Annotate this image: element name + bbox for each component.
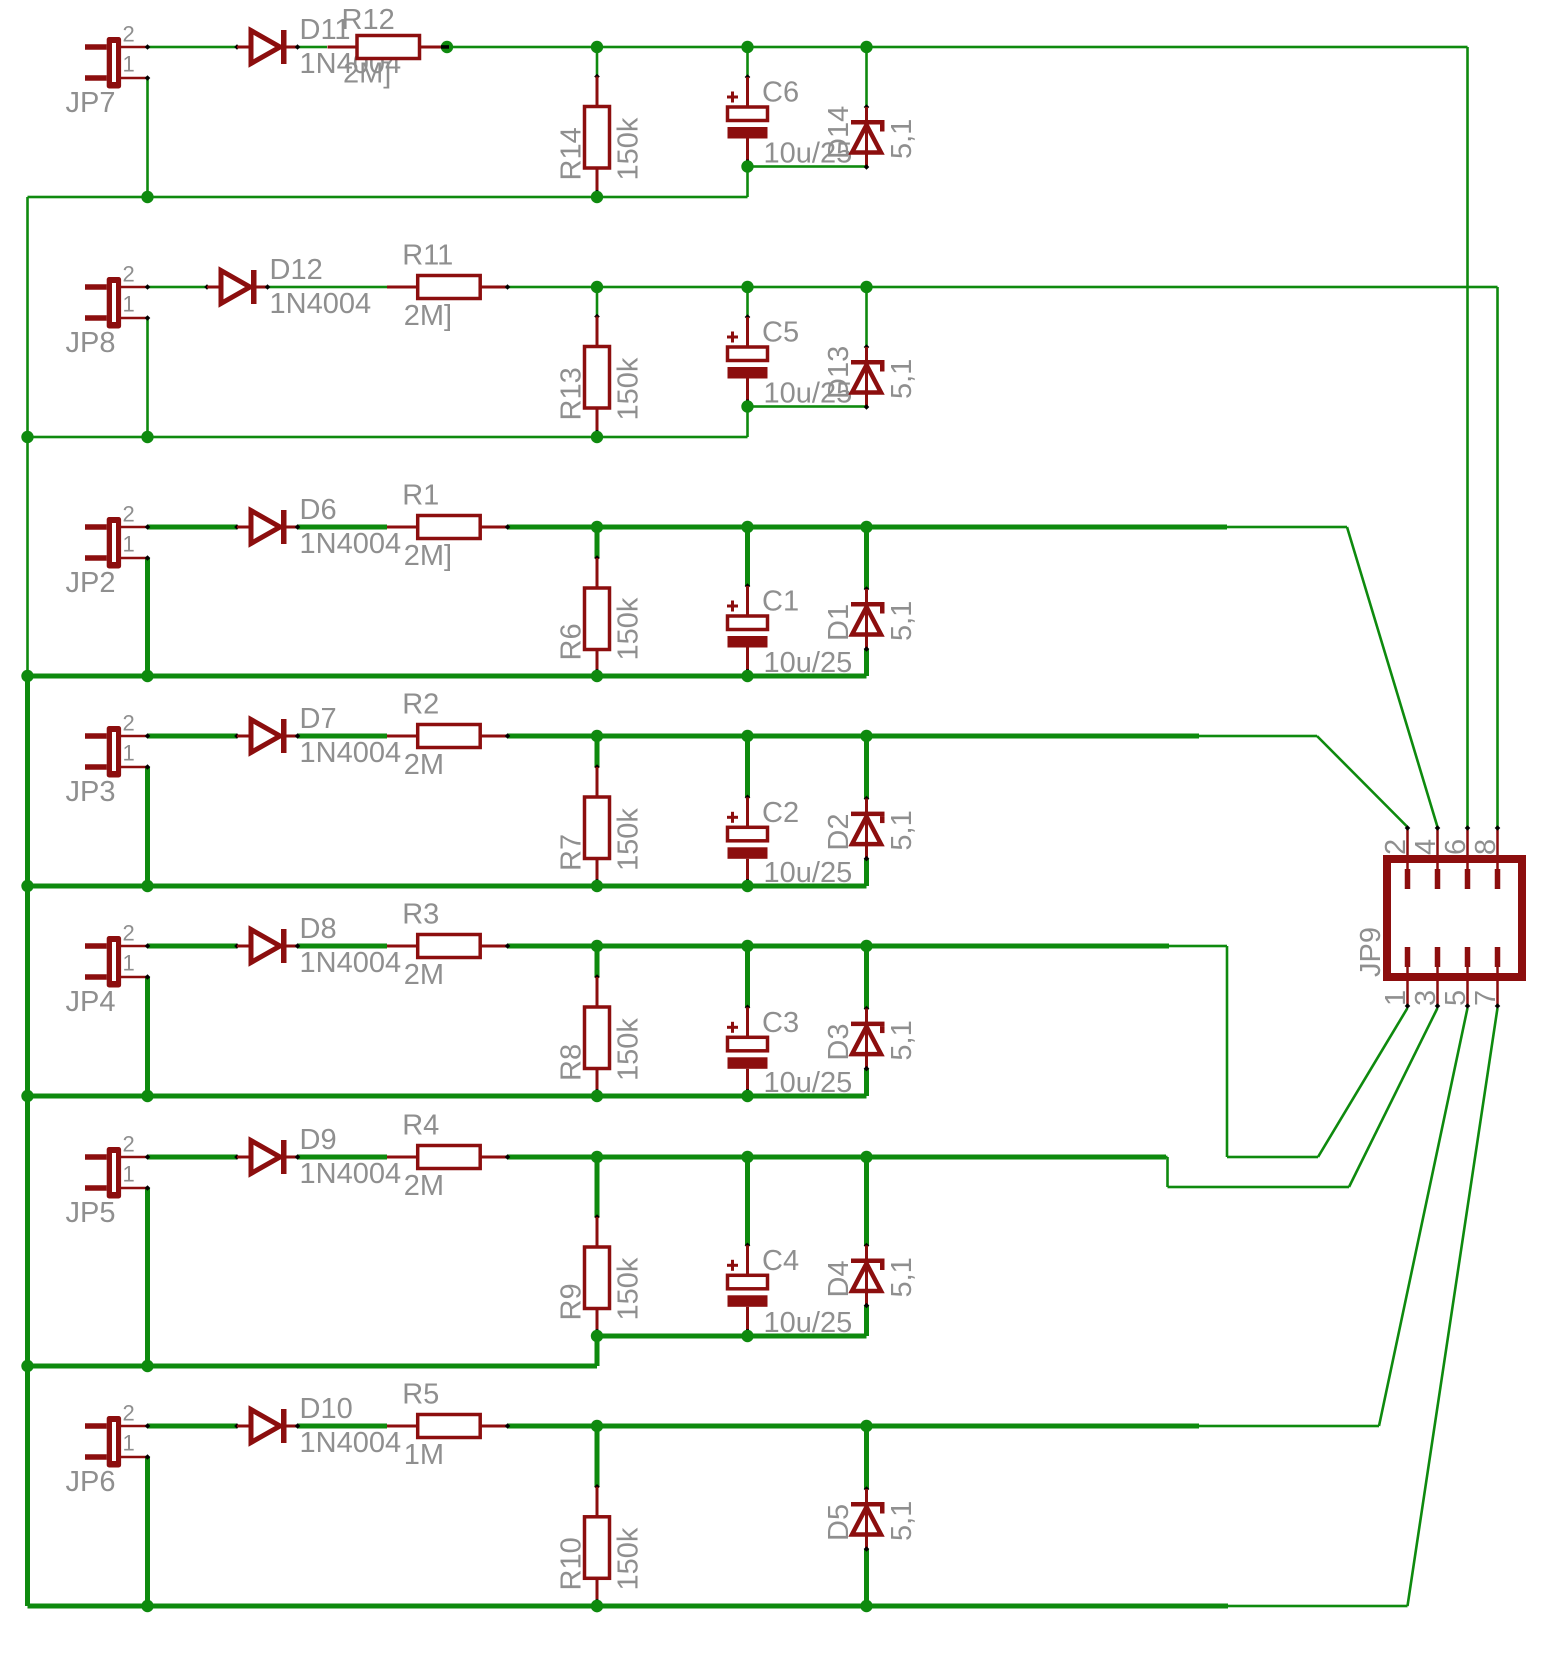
resistor R1 bbox=[387, 516, 508, 539]
svg-text:1: 1 bbox=[123, 532, 135, 557]
svg-text:JP6: JP6 bbox=[66, 1466, 116, 1498]
wire stub to D4 bbox=[864, 1157, 869, 1246]
svg-text:2: 2 bbox=[123, 262, 135, 287]
svg-text:JP2: JP2 bbox=[66, 567, 116, 599]
resistor R5 bbox=[387, 1415, 508, 1438]
wire stub to D2 bbox=[864, 736, 869, 799]
junction bbox=[141, 1090, 153, 1102]
connector JP2 bbox=[85, 517, 150, 569]
svg-text:1: 1 bbox=[123, 1162, 135, 1187]
junction bbox=[741, 880, 753, 892]
svg-text:D5: D5 bbox=[823, 1504, 855, 1541]
wire row3 net (thick) bbox=[508, 525, 1228, 530]
svg-text:1N4004: 1N4004 bbox=[270, 288, 372, 320]
wire stub to D14 bbox=[865, 47, 868, 107]
junction bbox=[591, 41, 603, 53]
diode D6 bbox=[234, 510, 300, 544]
svg-text:1N4004: 1N4004 bbox=[300, 737, 402, 769]
svg-text:150k: 150k bbox=[613, 808, 645, 871]
svg-text:3: 3 bbox=[1410, 990, 1442, 1006]
junction bbox=[591, 1151, 603, 1163]
svg-text:D1: D1 bbox=[823, 604, 855, 641]
svg-text:1: 1 bbox=[123, 52, 135, 77]
wire row1 component bottoms bbox=[748, 165, 867, 168]
svg-text:D10: D10 bbox=[300, 1393, 353, 1425]
junction bbox=[441, 41, 453, 53]
svg-text:D14: D14 bbox=[823, 106, 855, 159]
svg-text:D13: D13 bbox=[823, 346, 855, 399]
svg-text:R5: R5 bbox=[402, 1379, 439, 1411]
connector JP8 bbox=[85, 277, 150, 329]
diode D7 bbox=[234, 719, 300, 753]
svg-text:10u/25: 10u/25 bbox=[764, 1067, 853, 1099]
junction bbox=[741, 670, 753, 682]
pin end bbox=[505, 524, 511, 530]
zener diode D1 bbox=[851, 586, 885, 652]
junction bbox=[591, 431, 603, 443]
wire rail row7 to JP9 pin7 (thin) bbox=[1228, 1605, 1408, 1608]
wire row6 component bottoms bbox=[597, 1334, 867, 1339]
wire row2 component bottoms bbox=[748, 405, 867, 408]
junction bbox=[860, 281, 872, 293]
junction bbox=[741, 1330, 753, 1342]
wire stub to R9 bbox=[595, 1157, 600, 1217]
junction bbox=[860, 1600, 872, 1612]
wire rail row3 bbox=[28, 674, 867, 679]
wire D5 to rail row7 bbox=[864, 1549, 869, 1606]
svg-text:5,1: 5,1 bbox=[886, 1501, 918, 1541]
wire stub to C6 bbox=[746, 47, 749, 77]
svg-text:R8: R8 bbox=[556, 1044, 588, 1081]
junction bbox=[141, 880, 153, 892]
svg-text:1M: 1M bbox=[404, 1439, 444, 1471]
junction on left bus bbox=[21, 431, 33, 443]
wire row4 net to JP9 pin2 (thin) bbox=[1199, 735, 1317, 738]
svg-text:1N4004: 1N4004 bbox=[300, 1158, 402, 1190]
svg-text:2M: 2M bbox=[404, 959, 444, 991]
wire D12 to R11 bbox=[268, 286, 388, 289]
svg-text:D7: D7 bbox=[300, 703, 337, 735]
wire row2 net to JP9 pin8 bbox=[508, 286, 1498, 289]
svg-text:JP9: JP9 bbox=[1355, 927, 1387, 977]
svg-text:R12: R12 bbox=[342, 4, 395, 36]
wire stub to R8 bbox=[595, 946, 600, 977]
junction bbox=[860, 730, 872, 742]
svg-text:1: 1 bbox=[123, 292, 135, 317]
resistor R4 bbox=[387, 1146, 508, 1169]
svg-text:2: 2 bbox=[123, 22, 135, 47]
svg-text:8: 8 bbox=[1470, 839, 1502, 855]
connector JP4 bbox=[85, 936, 150, 988]
diode D12 bbox=[204, 270, 270, 304]
wire stub to C1 bbox=[745, 527, 750, 586]
wire stub to R14 bbox=[596, 47, 599, 77]
resistor R8 bbox=[585, 974, 610, 1096]
pin end bbox=[746, 1089, 749, 1098]
pin end bbox=[746, 400, 749, 409]
svg-text:150k: 150k bbox=[613, 1527, 645, 1590]
junction bbox=[591, 1330, 603, 1342]
diode D10 bbox=[234, 1409, 300, 1443]
junction bbox=[591, 521, 603, 533]
svg-text:2M]: 2M] bbox=[343, 58, 391, 90]
junction bbox=[860, 41, 872, 53]
junction on left bus bbox=[21, 1360, 33, 1372]
pin end bbox=[746, 160, 749, 169]
junction bbox=[860, 940, 872, 952]
junction bbox=[741, 521, 753, 533]
capacitor C5 bbox=[727, 314, 768, 406]
junction bbox=[591, 1600, 603, 1612]
junction bbox=[860, 521, 872, 533]
junction bbox=[591, 1090, 603, 1102]
wire row6 net to JP9 pin3 (thin) bbox=[1166, 1156, 1168, 1159]
resistor R12 bbox=[328, 36, 448, 59]
connector JP9 bbox=[1387, 825, 1522, 1009]
pin end bbox=[596, 669, 599, 678]
junction bbox=[741, 940, 753, 952]
pin end bbox=[746, 1329, 749, 1338]
wire rail row5 bbox=[28, 1094, 867, 1099]
svg-text:D4: D4 bbox=[823, 1260, 855, 1297]
svg-text:6: 6 bbox=[1440, 839, 1472, 855]
svg-text:D6: D6 bbox=[300, 494, 337, 526]
svg-text:C3: C3 bbox=[762, 1007, 799, 1039]
wire D9 to R4 bbox=[298, 1155, 388, 1160]
connector JP3 bbox=[85, 726, 150, 778]
left bus wire (thick lower part) bbox=[25, 676, 30, 1606]
junction bbox=[141, 431, 153, 443]
junction bbox=[591, 191, 603, 203]
svg-text:2M: 2M bbox=[404, 749, 444, 781]
wire JP3 pin1 down to rail bbox=[145, 767, 150, 886]
wire stub to D13 bbox=[865, 287, 868, 347]
wire D10 to R5 bbox=[298, 1424, 388, 1429]
svg-text:R10: R10 bbox=[556, 1537, 588, 1590]
wire row4 net (thick) bbox=[508, 734, 1200, 739]
svg-text:5,1: 5,1 bbox=[886, 810, 918, 850]
junction bbox=[141, 191, 153, 203]
pin end bbox=[746, 669, 749, 678]
wire JP4 pin2 to D8 bbox=[148, 944, 238, 949]
pin end bbox=[596, 1089, 599, 1098]
connector JP5 bbox=[85, 1147, 150, 1199]
junction bbox=[741, 41, 753, 53]
wire row6 bottoms to rail bbox=[595, 1336, 600, 1366]
resistor R9 bbox=[585, 1214, 610, 1336]
pin end bbox=[505, 284, 511, 290]
svg-text:JP4: JP4 bbox=[66, 986, 116, 1018]
junction bbox=[860, 1151, 872, 1163]
wire D6 to R1 bbox=[298, 525, 388, 530]
svg-text:2M: 2M bbox=[404, 1170, 444, 1202]
svg-text:150k: 150k bbox=[613, 357, 645, 420]
wire rail row4 bbox=[28, 884, 867, 889]
junction bbox=[860, 1420, 872, 1432]
svg-text:5,1: 5,1 bbox=[886, 359, 918, 399]
wire JP8 pin1 down to rail bbox=[146, 318, 149, 437]
resistor R13 bbox=[585, 314, 610, 437]
capacitor C3 bbox=[727, 1005, 768, 1097]
capacitor C1 bbox=[727, 583, 768, 676]
junction on left bus bbox=[21, 1090, 33, 1102]
svg-text:D8: D8 bbox=[300, 913, 337, 945]
svg-text:7: 7 bbox=[1470, 990, 1502, 1006]
svg-text:JP3: JP3 bbox=[66, 776, 116, 808]
svg-text:JP7: JP7 bbox=[66, 87, 116, 119]
junction bbox=[141, 670, 153, 682]
diode D8 bbox=[234, 929, 300, 963]
wire JP6 pin2 to D10 bbox=[148, 1424, 238, 1429]
svg-text:150k: 150k bbox=[613, 117, 645, 180]
svg-text:10u/25: 10u/25 bbox=[764, 1307, 853, 1339]
wire rail row7 (thick) bbox=[28, 1604, 1229, 1609]
wire rail row2 bbox=[28, 436, 748, 439]
wire D8 to R3 bbox=[298, 944, 388, 949]
resistor R3 bbox=[387, 935, 508, 958]
wire stub to C4 bbox=[745, 1157, 750, 1245]
junction bbox=[741, 281, 753, 293]
resistor R6 bbox=[585, 555, 610, 676]
pin end bbox=[596, 1599, 599, 1608]
svg-text:5: 5 bbox=[1440, 990, 1472, 1006]
wire JP4 pin1 down to rail bbox=[145, 977, 150, 1096]
wire JP7 pin2 to D11 bbox=[148, 46, 238, 49]
svg-text:C1: C1 bbox=[762, 586, 799, 618]
resistor R14 bbox=[585, 74, 610, 197]
wire row6 net (thick) bbox=[508, 1155, 1167, 1160]
wire JP8 pin2 to D12 bbox=[148, 286, 208, 289]
zener diode D4 bbox=[851, 1243, 885, 1309]
wire row7 net (thick) bbox=[508, 1424, 1200, 1429]
svg-text:R9: R9 bbox=[556, 1283, 588, 1320]
svg-text:R7: R7 bbox=[556, 834, 588, 871]
zener diode D3 bbox=[851, 1006, 885, 1072]
junction bbox=[591, 1600, 603, 1612]
wire row3 net to JP9 pin4 (thin) bbox=[1227, 526, 1347, 529]
svg-text:150k: 150k bbox=[613, 1018, 645, 1081]
junction bbox=[741, 730, 753, 742]
wire JP7 pin1 down to rail bbox=[146, 78, 149, 197]
wire row5 net (thick) bbox=[508, 944, 1170, 949]
wire stub to D1 bbox=[864, 527, 869, 589]
wire stub to D3 bbox=[864, 946, 869, 1009]
pin end bbox=[596, 190, 599, 199]
junction bbox=[741, 1151, 753, 1163]
svg-text:10u/25: 10u/25 bbox=[764, 857, 853, 889]
junction bbox=[741, 400, 753, 412]
wire stub to C3 bbox=[745, 946, 750, 1007]
pin end bbox=[505, 1423, 511, 1429]
junction bbox=[741, 160, 753, 172]
connector JP7 bbox=[85, 37, 150, 89]
resistor R2 bbox=[387, 725, 508, 748]
pin end bbox=[596, 1329, 599, 1338]
junction on left bus bbox=[21, 670, 33, 682]
svg-text:JP5: JP5 bbox=[66, 1197, 116, 1229]
svg-text:R4: R4 bbox=[402, 1110, 439, 1142]
junction bbox=[591, 940, 603, 952]
svg-text:R3: R3 bbox=[402, 899, 439, 931]
resistor R7 bbox=[585, 764, 610, 886]
junction bbox=[141, 1600, 153, 1612]
svg-text:C4: C4 bbox=[762, 1245, 799, 1277]
svg-text:10u/25: 10u/25 bbox=[764, 647, 853, 679]
wire stub to R10 bbox=[595, 1426, 600, 1487]
svg-text:150k: 150k bbox=[613, 597, 645, 660]
wire JP6 pin1 down to rail bbox=[145, 1457, 150, 1606]
wire stub to C2 bbox=[745, 736, 750, 797]
svg-text:4: 4 bbox=[1410, 839, 1442, 855]
pin end bbox=[596, 430, 599, 439]
svg-text:2M]: 2M] bbox=[404, 300, 452, 332]
svg-text:1: 1 bbox=[123, 741, 135, 766]
junction bbox=[591, 1420, 603, 1432]
pin end bbox=[596, 879, 599, 888]
svg-text:2: 2 bbox=[123, 921, 135, 946]
svg-text:2M]: 2M] bbox=[404, 540, 452, 572]
svg-text:5,1: 5,1 bbox=[886, 1257, 918, 1297]
svg-text:D12: D12 bbox=[270, 254, 323, 286]
wire rail row1 bbox=[28, 196, 748, 199]
wire stub to D5 bbox=[864, 1426, 869, 1489]
wire stub to R6 bbox=[595, 527, 600, 558]
svg-text:150k: 150k bbox=[613, 1257, 645, 1320]
junction bbox=[591, 670, 603, 682]
wire row5 net to JP9 pin1 (thin) bbox=[1169, 945, 1227, 948]
pin end bbox=[441, 45, 449, 49]
diode D9 bbox=[234, 1140, 300, 1174]
wire stub to R7 bbox=[595, 736, 600, 767]
junction on left bus bbox=[21, 880, 33, 892]
svg-text:2: 2 bbox=[123, 502, 135, 527]
diode D11 bbox=[234, 30, 300, 64]
wire row7 net to JP9 pin5 (thin) bbox=[1199, 1425, 1379, 1428]
svg-text:1: 1 bbox=[123, 951, 135, 976]
wire row1 net to JP9 pin6 bbox=[447, 46, 1468, 49]
svg-text:R11: R11 bbox=[402, 240, 453, 272]
wire stub to R13 bbox=[596, 287, 599, 317]
svg-text:5,1: 5,1 bbox=[886, 1020, 918, 1060]
svg-text:1N4004: 1N4004 bbox=[300, 1427, 402, 1459]
svg-text:1: 1 bbox=[123, 1431, 135, 1456]
svg-text:D3: D3 bbox=[823, 1024, 855, 1061]
svg-text:5,1: 5,1 bbox=[886, 119, 918, 159]
svg-text:R1: R1 bbox=[402, 480, 439, 512]
wire JP5 pin1 down to rail bbox=[145, 1188, 150, 1366]
svg-text:5,1: 5,1 bbox=[886, 601, 918, 641]
svg-text:C5: C5 bbox=[762, 317, 799, 349]
svg-text:2: 2 bbox=[123, 711, 135, 736]
junction bbox=[591, 880, 603, 892]
capacitor C4 bbox=[727, 1243, 768, 1337]
svg-text:1N4004: 1N4004 bbox=[300, 947, 402, 979]
svg-text:1: 1 bbox=[1380, 990, 1412, 1006]
left bus wire (thin upper part) bbox=[26, 197, 29, 676]
svg-text:1N4004: 1N4004 bbox=[300, 528, 402, 560]
zener diode D2 bbox=[851, 796, 885, 862]
pin end bbox=[505, 943, 511, 949]
wire D11 to R12 bbox=[298, 46, 328, 49]
svg-text:JP8: JP8 bbox=[66, 327, 116, 359]
wire JP2 pin1 down to rail bbox=[145, 558, 150, 676]
wire D7 to R2 bbox=[298, 734, 388, 739]
junction bbox=[591, 281, 603, 293]
capacitor C2 bbox=[727, 795, 768, 887]
wire rail row6 bbox=[28, 1364, 598, 1369]
connector JP6 bbox=[85, 1416, 150, 1468]
pin end bbox=[505, 1154, 511, 1160]
svg-text:R2: R2 bbox=[402, 689, 439, 721]
zener diode D13 bbox=[851, 344, 885, 410]
junction bbox=[591, 730, 603, 742]
svg-text:2: 2 bbox=[123, 1401, 135, 1426]
resistor R10 bbox=[585, 1484, 610, 1606]
wire JP5 pin2 to D9 bbox=[148, 1155, 238, 1160]
svg-text:C2: C2 bbox=[762, 797, 799, 829]
svg-text:2: 2 bbox=[123, 1132, 135, 1157]
svg-text:R13: R13 bbox=[556, 367, 588, 420]
resistor R11 bbox=[387, 276, 508, 299]
pin end bbox=[505, 733, 511, 739]
svg-text:C6: C6 bbox=[762, 77, 799, 109]
junction bbox=[141, 1360, 153, 1372]
svg-text:D2: D2 bbox=[823, 814, 855, 851]
svg-text:R6: R6 bbox=[556, 623, 588, 660]
zener diode D14 bbox=[851, 104, 885, 170]
svg-text:R14: R14 bbox=[556, 127, 588, 180]
junction bbox=[741, 1090, 753, 1102]
wire stub to C5 bbox=[746, 287, 749, 317]
wire JP3 pin2 to D7 bbox=[148, 734, 238, 739]
wire JP2 pin2 to D6 bbox=[148, 525, 238, 530]
svg-text:D9: D9 bbox=[300, 1124, 337, 1156]
zener diode D5 bbox=[851, 1486, 885, 1552]
capacitor C6 bbox=[727, 74, 768, 166]
svg-text:2: 2 bbox=[1380, 839, 1412, 855]
pin end bbox=[746, 879, 749, 888]
